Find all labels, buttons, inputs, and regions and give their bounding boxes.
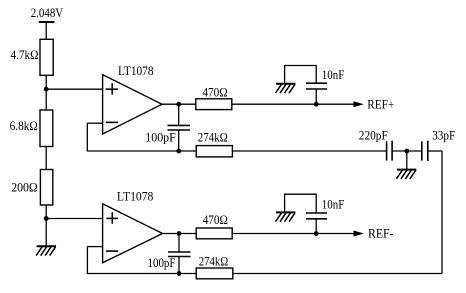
svg-text:4.7kΩ: 4.7kΩ [11,48,39,62]
node C3 C4 junction dot [404,149,409,154]
wire bottom feedback line to R7 [87,273,196,275]
resistor R7 274kΩ body [196,268,233,279]
op-amp U1 plus input symbol [106,83,118,94]
resistor R5 274kΩ body [196,146,232,157]
resistor R5 value label 274kΩ [198,130,228,144]
wire R2 to R3 [45,147,47,170]
capacitor C1 value label 100pF [145,130,176,144]
svg-text:220pF: 220pF [359,128,388,142]
node REF+ filter junction dot [314,102,319,107]
node U1 output junction dot [176,102,181,107]
op-amp U2 plus input symbol [106,212,118,224]
node REF- filter junction dot [314,231,319,236]
op-amp U2 label LT1078 [117,189,153,203]
node B junction dot [44,216,49,221]
svg-text:LT1078: LT1078 [118,64,154,78]
resistor R7 value label 274kΩ [199,255,229,269]
capacitor C5 value label 100pF [148,256,176,270]
capacitor C6 10nF plates [306,213,327,219]
capacitor C2 10nF plates [306,83,327,89]
net 2.048V terminal label [31,6,64,20]
wire C6 bottom plate to REF- line [315,219,317,234]
wire C1 bottom plate to feedback line [178,130,180,151]
wire R4 to REF+ arrow [232,103,354,105]
svg-text:6.8kΩ: 6.8kΩ [10,119,38,133]
wire C5 bottom plate to feedback line [178,257,180,274]
net label REF- [368,227,394,241]
REF+ arrow head [354,101,364,107]
op-amp U2 LT1078 triangle [103,204,163,263]
resistor R1 4.7kΩ body [40,39,53,75]
wire terminal to R1 [45,22,47,39]
svg-text:10nF: 10nF [322,68,345,82]
capacitor C2 10nF bracket wire [285,66,317,84]
op-amp U1 label LT1078 [118,64,154,78]
resistor R3 200Ω body [40,170,52,206]
wire C4 to right vertical [428,150,442,152]
capacitor C2 value label 10nF [322,68,345,82]
svg-text:REF+: REF+ [367,98,394,112]
op-amp U1 LT1078 triangle [103,75,162,134]
svg-text:274kΩ: 274kΩ [199,255,229,269]
resistor R4 470Ω body [196,99,232,110]
ground G2 for C2 [276,84,296,93]
op-amp U1 minus input symbol [106,121,118,123]
resistor R2 6.8kΩ body [40,110,53,147]
node feedback C1 junction dot [176,149,181,154]
node U2 output junction dot [177,231,182,236]
svg-text:200Ω: 200Ω [11,181,38,195]
node A junction dot [44,87,49,92]
wire feedback line to R5 [87,150,197,152]
wire junction to ground G3 [406,151,408,170]
REF- arrow head [354,231,365,237]
node feedback C5 junction dot [177,271,182,276]
resistor R1 value label 4.7kΩ [11,48,39,62]
wire R1 to R2 [45,75,47,110]
ground G4 for C6 [276,212,296,221]
resistor R4 value label 470Ω [202,86,227,100]
resistor R2 value label 6.8kΩ [10,119,38,133]
resistor R6 value label 470Ω [203,213,228,227]
wire U1 output node to C1 top plate [178,104,180,125]
wire R3 to ground [45,205,47,246]
wire U2 output to R6 [163,233,197,235]
wire U1 inverting input [87,122,102,124]
svg-text:33pF: 33pF [432,128,455,142]
capacitor C4 value label 33pF [432,128,455,142]
svg-text:470Ω: 470Ω [203,213,228,227]
wire R7 to right vertical [233,273,442,275]
svg-text:274kΩ: 274kΩ [198,130,228,144]
wire U2 output node to C5 top plate [178,234,180,253]
svg-text:10nF: 10nF [322,198,345,212]
wire feedback left vertical U2 [86,247,88,274]
svg-text:2.048V: 2.048V [31,6,64,20]
resistor R3 value label 200Ω [11,181,38,195]
capacitor C6 10nF bracket wire [285,194,317,213]
capacitor C3 value label 220pF [359,128,388,142]
net 2.048V terminal bar [39,21,55,23]
wire feedback left vertical U1 [86,123,88,151]
capacitor C4 33pF plates [422,141,428,161]
wire R6 to REF- arrow [232,233,354,235]
resistor R6 470Ω body [196,228,232,239]
svg-text:100pF: 100pF [145,130,176,144]
svg-text:470Ω: 470Ω [202,86,227,100]
capacitor C5 100pF plates [168,252,191,257]
wire U1 output to R4 [162,103,196,105]
op-amp U2 minus input symbol [106,250,118,252]
net label REF+ [367,98,394,112]
wire node A to op-amp U1 noninverting input [46,88,102,90]
wire R5 to C3 [232,150,386,152]
wire C2 bottom plate to REF+ line [315,89,317,104]
capacitor C6 value label 10nF [322,198,345,212]
wire right vertical down to bottom feedback [441,151,443,274]
ground G1 below divider [36,246,56,255]
wire U2 inverting input [87,246,102,248]
ground G3 [396,170,416,179]
svg-text:100pF: 100pF [148,256,176,270]
wire C3 to C4 [392,150,422,152]
svg-text:REF-: REF- [368,227,394,241]
capacitor C1 100pF plates [168,125,191,130]
wire node B to op-amp U2 noninverting input [46,218,102,220]
capacitor C3 220pF plates [387,141,393,161]
svg-text:LT1078: LT1078 [117,189,153,203]
